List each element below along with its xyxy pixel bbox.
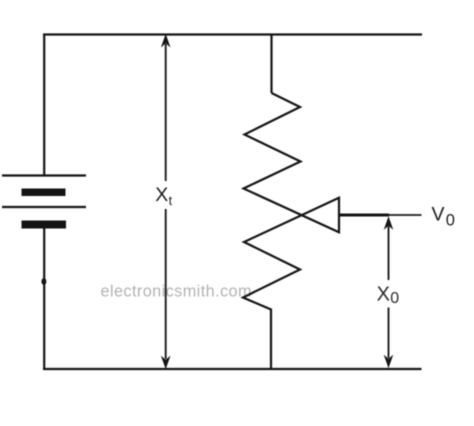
- wire left lower: [43, 221, 45, 370]
- wire top rail: [43, 33, 422, 35]
- svg-text:V: V: [432, 204, 445, 226]
- battery B1 plate long top: [2, 174, 86, 176]
- dimension arrow X0 head up: [384, 216, 394, 230]
- potentiometer R1 zigzag body: [243, 93, 339, 370]
- dimension arrow Xt head up: [161, 34, 171, 48]
- dimension arrow X0 head down: [384, 355, 394, 369]
- svg-text:0: 0: [446, 212, 455, 230]
- svg-text:0: 0: [390, 290, 399, 307]
- battery B1 plate short thick upper: [22, 189, 66, 197]
- svg-text:X: X: [155, 184, 168, 206]
- svg-text:electronicsmith.com: electronicsmith.com: [101, 283, 252, 301]
- battery B1 plate long middle: [2, 206, 86, 208]
- dimension arrow Xt stem upper: [165, 44, 167, 181]
- wire wiper output: [340, 214, 389, 217]
- wire bottom rail: [43, 368, 422, 370]
- dimension arrow X0 stem upper: [388, 226, 390, 280]
- wire V0 leader: [389, 214, 422, 216]
- wire potentiometer top lead: [270, 34, 272, 94]
- dimension arrow X0 stem lower: [388, 308, 390, 359]
- junction dot on left wire: [41, 278, 46, 285]
- dimension arrow Xt stem lower: [165, 209, 167, 359]
- dimension arrow Xt head down: [161, 356, 171, 370]
- svg-text:X: X: [377, 284, 390, 306]
- battery B1 plate short thick lower: [22, 221, 67, 229]
- wire left upper: [43, 34, 45, 177]
- svg-text:t: t: [169, 194, 173, 208]
